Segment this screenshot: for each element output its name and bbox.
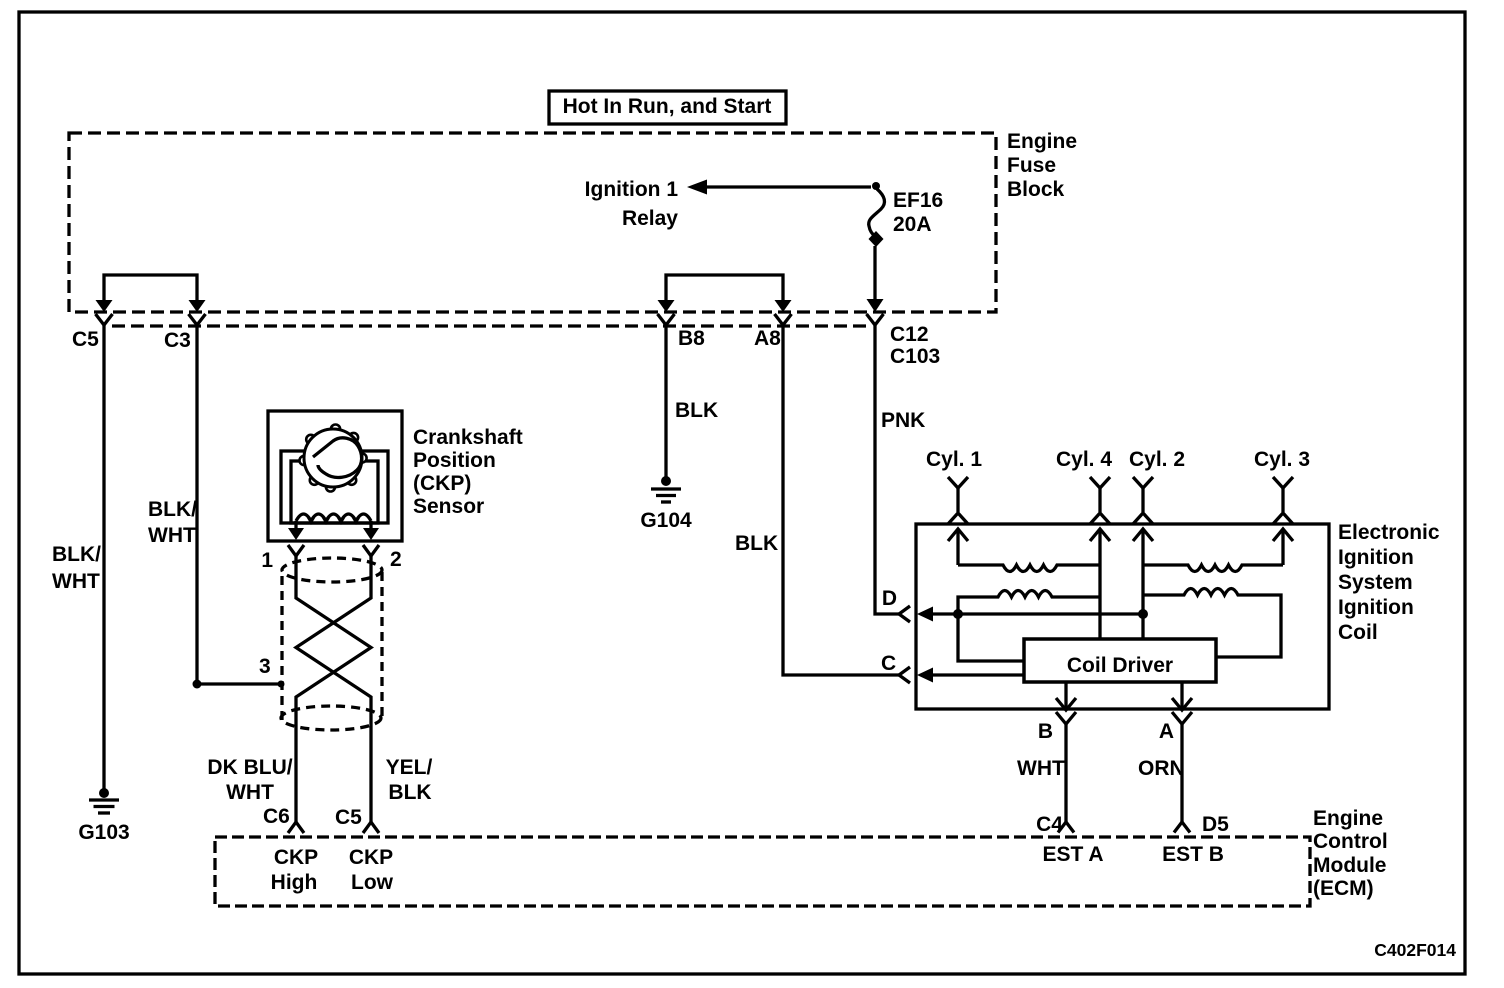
svg-text:C103: C103	[890, 345, 940, 368]
wire label DK BLU/WHT	[207, 756, 292, 804]
svg-text:BLK/: BLK/	[148, 498, 197, 521]
ground G103	[78, 788, 129, 844]
svg-text:D5: D5	[1202, 813, 1229, 836]
svg-text:BLK/: BLK/	[52, 543, 101, 566]
Cyl. 1 terminal	[926, 448, 982, 541]
svg-text:1: 1	[261, 549, 273, 572]
terminal C female	[881, 652, 910, 683]
svg-text:C: C	[881, 652, 896, 675]
wire BLK/WHT from C3 to pin 3	[148, 325, 285, 689]
svg-text:WHT: WHT	[226, 781, 274, 804]
CKP pin 1 arrow	[261, 521, 304, 572]
CKP sensor reluctor wheel	[300, 425, 367, 492]
shielded twisted pair dashed shield	[281, 558, 382, 730]
ECM terminal C5	[335, 806, 379, 833]
svg-text:Position: Position	[413, 449, 496, 472]
svg-text:C12: C12	[890, 323, 929, 346]
svg-text:Control: Control	[1313, 830, 1388, 853]
svg-text:Coil Driver: Coil Driver	[1067, 654, 1173, 677]
svg-text:ORN: ORN	[1138, 757, 1185, 780]
primary winding coil 2/3	[1143, 589, 1281, 658]
Engine Control Module label	[1313, 807, 1388, 900]
svg-text:DK BLU/: DK BLU/	[207, 756, 292, 779]
svg-text:Engine: Engine	[1313, 807, 1383, 830]
svg-text:G103: G103	[78, 821, 129, 844]
svg-text:Engine: Engine	[1007, 130, 1077, 153]
svg-text:EF16: EF16	[893, 189, 943, 212]
wire BLK from B8 to G104	[666, 325, 718, 477]
wire ORN A to EST B	[1138, 724, 1229, 836]
terminal B output	[1038, 682, 1076, 743]
svg-text:BLK: BLK	[675, 399, 718, 422]
svg-text:C3: C3	[164, 329, 191, 352]
svg-text:C4: C4	[1036, 813, 1063, 836]
svg-text:YEL/: YEL/	[386, 756, 433, 779]
svg-text:CKP: CKP	[349, 846, 393, 869]
svg-text:WHT: WHT	[52, 570, 100, 593]
svg-text:Fuse: Fuse	[1007, 154, 1056, 177]
svg-text:Block: Block	[1007, 178, 1065, 201]
fuse EF16 20A	[869, 182, 944, 300]
svg-text:A: A	[1159, 720, 1174, 743]
Crankshaft Position (CKP) Sensor label	[413, 426, 523, 518]
bracket bus feeding B8 and A8	[666, 275, 783, 301]
svg-text:Ignition: Ignition	[1338, 596, 1414, 619]
CKP sensor pickup coil winding	[296, 514, 371, 525]
svg-text:Electronic: Electronic	[1338, 521, 1440, 544]
svg-text:B: B	[1038, 720, 1053, 743]
ignition coil box	[916, 524, 1329, 709]
wire to Ignition 1 Relay with arrowhead	[585, 178, 871, 230]
svg-text:Cyl. 1: Cyl. 1	[926, 448, 982, 471]
svg-text:(CKP): (CKP)	[413, 472, 471, 495]
secondary winding coil 1/4	[958, 539, 1100, 639]
svg-text:Ignition: Ignition	[1338, 546, 1414, 569]
Cyl. 2 terminal	[1129, 448, 1185, 541]
ground G104	[640, 476, 692, 532]
CKP Low label	[349, 846, 394, 894]
svg-text:BLK: BLK	[388, 781, 431, 804]
connector C5 arrows	[72, 300, 113, 351]
svg-text:WHT: WHT	[1017, 757, 1065, 780]
twisted pair wire from pin 1	[296, 556, 371, 824]
svg-text:C5: C5	[72, 328, 99, 351]
CKP High label	[271, 846, 319, 894]
svg-text:PNK: PNK	[881, 409, 925, 432]
CKP pin 2 arrow	[363, 521, 402, 571]
svg-text:Low: Low	[351, 871, 394, 894]
wire label YEL/BLK	[386, 756, 433, 804]
svg-text:Cyl. 4: Cyl. 4	[1056, 448, 1112, 471]
ECM terminal C6	[263, 805, 304, 833]
svg-text:Coil: Coil	[1338, 621, 1378, 644]
Cyl. 4 terminal	[1056, 448, 1112, 541]
connector C3 arrows	[164, 300, 206, 352]
svg-text:C6: C6	[263, 805, 290, 828]
svg-text:G104: G104	[640, 509, 692, 532]
svg-text:3: 3	[259, 655, 271, 678]
ECM dashed box	[215, 837, 1310, 906]
svg-text:Ignition 1: Ignition 1	[585, 178, 679, 201]
svg-text:Relay: Relay	[622, 207, 678, 230]
Engine Fuse Block dashed box	[69, 130, 1077, 312]
svg-text:Hot In Run, and Start: Hot In Run, and Start	[563, 95, 772, 118]
svg-text:D: D	[882, 587, 897, 610]
Cyl. 3 terminal	[1254, 448, 1310, 541]
svg-text:High: High	[271, 871, 318, 894]
Coil Driver box	[1024, 639, 1216, 682]
connector A8 arrows	[754, 300, 792, 350]
Electronic Ignition System Ignition Coil label	[1338, 521, 1440, 644]
twisted pair wire from pin 2	[296, 556, 371, 824]
svg-text:20A: 20A	[893, 213, 932, 236]
secondary winding coil 2/3	[1143, 539, 1283, 614]
terminal D female	[882, 587, 910, 622]
svg-text:Sensor: Sensor	[413, 495, 484, 518]
svg-text:C5: C5	[335, 806, 362, 829]
svg-text:WHT: WHT	[148, 524, 196, 547]
svg-text:BLK: BLK	[735, 532, 778, 555]
connector B8 arrows	[658, 300, 706, 350]
wire WHT B to EST A	[1017, 724, 1074, 836]
svg-text:EST A: EST A	[1042, 843, 1103, 866]
svg-text:2: 2	[390, 548, 402, 571]
connector C12 male arrow and female	[867, 299, 941, 368]
bracket bus feeding C5 and C3	[104, 275, 197, 301]
svg-text:System: System	[1338, 571, 1413, 594]
wire BLK/WHT from C5 to G103	[52, 325, 104, 790]
svg-text:C402F014: C402F014	[1374, 940, 1456, 960]
terminal A output	[1159, 682, 1192, 743]
svg-text:B8: B8	[678, 327, 705, 350]
svg-text:Crankshaft: Crankshaft	[413, 426, 523, 449]
svg-text:Cyl. 2: Cyl. 2	[1129, 448, 1185, 471]
Hot In Run and Start box	[549, 91, 786, 124]
svg-text:Module: Module	[1313, 854, 1387, 877]
connector C103 dashed line	[112, 324, 866, 327]
C ground wire into coil driver	[917, 668, 1024, 683]
svg-text:Cyl. 3: Cyl. 3	[1254, 448, 1310, 471]
svg-text:(ECM): (ECM)	[1313, 877, 1374, 900]
wire PNK from C12 to terminal D	[875, 325, 925, 614]
CKP sensor box	[268, 411, 402, 541]
D power bus inside coil	[917, 607, 1148, 662]
svg-text:EST B: EST B	[1162, 843, 1224, 866]
svg-text:CKP: CKP	[274, 846, 318, 869]
svg-text:A8: A8	[754, 327, 781, 350]
wire BLK from A8 to terminal C	[735, 325, 899, 675]
primary winding coil 1/4	[958, 591, 1100, 615]
